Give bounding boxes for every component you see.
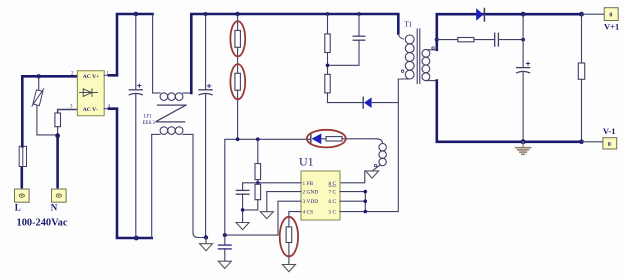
svg-text:6 C: 6 C xyxy=(329,199,337,205)
svg-text:V-1: V-1 xyxy=(603,126,616,136)
secondary winding xyxy=(422,49,430,57)
wire pin4 CS xyxy=(289,212,301,227)
resistor R2 startup (circled) xyxy=(235,73,241,139)
node VDD cap xyxy=(223,233,227,237)
wire varistor to N node xyxy=(37,105,58,135)
diode D2 clamp xyxy=(363,97,398,108)
circle mark R1 xyxy=(230,21,245,56)
wire pin2 GND xyxy=(267,192,301,212)
capacitor C6 VDD xyxy=(219,235,232,261)
svg-text:1 FB: 1 FB xyxy=(303,181,314,187)
svg-text:T1: T1 xyxy=(405,20,413,28)
svg-text:8 C: 8 C xyxy=(329,181,337,187)
wire varistor top xyxy=(38,76,40,90)
wire primary bottom to drain xyxy=(365,79,409,212)
node rail2 clamp R xyxy=(326,12,330,16)
wire pin3 VDD xyxy=(225,201,301,235)
resistor R7 FB upper xyxy=(255,139,261,184)
fuse F1 xyxy=(19,146,26,166)
resistor R6 load xyxy=(578,14,584,142)
wire to V+1 xyxy=(582,13,605,15)
snubber row: wire xyxy=(437,39,458,41)
secondary phase dot xyxy=(432,47,434,49)
ground pin2 xyxy=(260,212,273,219)
capacitor C7 FB xyxy=(236,183,257,223)
terminal V-1 xyxy=(603,138,617,149)
resistor R5 snubber xyxy=(458,38,474,42)
ground output (earth) xyxy=(516,142,531,155)
ground R9 xyxy=(282,265,295,272)
wire VDD node xyxy=(225,139,311,235)
capacitor C1 xyxy=(129,14,142,238)
secondary top lead xyxy=(428,49,437,51)
wire pin1 FB xyxy=(258,182,301,184)
node pin5 xyxy=(364,210,368,214)
output top rail xyxy=(437,13,582,16)
wire secondary top thick xyxy=(435,14,438,50)
capacitor C3 clamp xyxy=(328,14,365,65)
terminal L xyxy=(15,187,30,202)
resistor R9 CS (circled) xyxy=(286,227,292,264)
resistor RN (N line) xyxy=(55,113,61,127)
wire L up to bridge xyxy=(22,76,77,146)
node startup R to vdd wire xyxy=(236,137,240,141)
circle mark R2 xyxy=(230,64,245,99)
terminal V+1 xyxy=(604,8,618,21)
node pin6 xyxy=(364,199,368,203)
node L-varistor xyxy=(37,74,41,78)
capacitor C5 output xyxy=(517,14,530,142)
svg-text:AC V+: AC V+ xyxy=(83,74,100,80)
node snubber right xyxy=(521,38,525,42)
svg-text:100-240Vac: 100-240Vac xyxy=(17,217,68,228)
wire drain bus xyxy=(364,192,366,212)
node rail2 C2 xyxy=(204,12,208,16)
terminal N xyxy=(52,187,67,202)
wire choke bottom-right to primary gnd xyxy=(193,134,206,237)
resistor R1 startup (circled) xyxy=(235,14,241,73)
bridge rectifier U2 xyxy=(77,71,104,116)
wire pin5 xyxy=(340,211,365,213)
wire xyxy=(474,39,494,41)
secondary bottom lead xyxy=(426,80,437,82)
node load R top xyxy=(579,12,584,17)
wire to V-1 xyxy=(582,141,603,143)
svg-text:4 CS: 4 CS xyxy=(303,210,314,216)
wire pin8 to aux ground xyxy=(340,171,365,183)
ground FB xyxy=(236,223,249,230)
resistor R4 clamp xyxy=(325,74,363,102)
svg-text:3 VDD: 3 VDD xyxy=(303,199,319,205)
wire pin6 xyxy=(340,200,365,202)
node FB gnd xyxy=(241,208,245,212)
wire bridge pin4 down to bottom rail xyxy=(109,109,152,238)
wire xyxy=(499,39,523,41)
node FB xyxy=(256,181,260,185)
ground aux xyxy=(366,171,379,178)
svg-text:V+1: V+1 xyxy=(604,21,619,31)
svg-text:2 GND: 2 GND xyxy=(303,190,319,196)
wire N down xyxy=(56,136,59,187)
svg-text:5 C: 5 C xyxy=(329,210,337,216)
node rail2 clamp C xyxy=(357,12,361,16)
svg-text:7 C: 7 C xyxy=(329,190,337,196)
wire pin7 xyxy=(340,191,365,193)
svg-text:0: 0 xyxy=(609,13,612,19)
node bottom rail C1 xyxy=(134,236,139,241)
wire rail1 down to choke xyxy=(152,14,154,93)
circle mark D3-R10 xyxy=(307,130,346,148)
resistor R10 aux (circled) xyxy=(326,137,376,141)
circle mark R9 xyxy=(280,217,298,257)
capacitor C2 xyxy=(199,14,212,238)
wire choke bottom-left down xyxy=(151,134,153,238)
node rail2 startup R xyxy=(235,12,239,16)
rail2 and primary top xyxy=(191,14,398,93)
ground C6 xyxy=(218,261,231,268)
resistor R3 clamp xyxy=(325,14,330,74)
node N xyxy=(55,133,60,138)
svg-text:3: 3 xyxy=(70,105,73,110)
wire resistor to N node xyxy=(57,127,59,136)
capacitor C4 snubber xyxy=(495,33,499,46)
wire bridge pin1 up to rail1 xyxy=(109,14,153,75)
resistor R8 FB lower xyxy=(243,184,261,210)
node pin7 xyxy=(364,190,368,194)
wire secondary bottom thick xyxy=(437,81,582,142)
diode D1 output xyxy=(476,8,484,21)
wire bridge pin1 stub xyxy=(104,74,110,76)
node clamp xyxy=(326,64,330,68)
svg-text:U1: U1 xyxy=(299,154,314,168)
svg-text:EE8.3: EE8.3 xyxy=(143,121,156,126)
inductor L2 aux winding xyxy=(373,139,387,171)
svg-text:0: 0 xyxy=(608,142,611,148)
node snubber top xyxy=(435,38,439,42)
ground primary xyxy=(200,238,213,251)
svg-text:L: L xyxy=(15,203,21,213)
node output gnd xyxy=(521,139,526,144)
node rail1 C1 xyxy=(134,12,139,17)
wire bridge pin4 stub xyxy=(104,108,110,110)
varistor RV1 xyxy=(32,89,44,106)
wire L vertical xyxy=(20,167,23,187)
node fb divider top xyxy=(256,137,260,141)
core xyxy=(416,29,418,84)
svg-text:N: N xyxy=(51,203,58,213)
svg-text:LF1: LF1 xyxy=(144,114,153,119)
diode D3 aux (circled) xyxy=(311,133,326,144)
wire bridge pin3 to resistor xyxy=(58,110,78,114)
primary phase dot xyxy=(401,70,403,72)
primary winding xyxy=(398,34,403,40)
node diode out xyxy=(521,12,526,17)
choke LF1 xyxy=(152,93,193,135)
node primary gnd xyxy=(204,235,208,239)
svg-text:AC V-: AC V- xyxy=(83,107,98,113)
node V-1 xyxy=(579,140,584,145)
